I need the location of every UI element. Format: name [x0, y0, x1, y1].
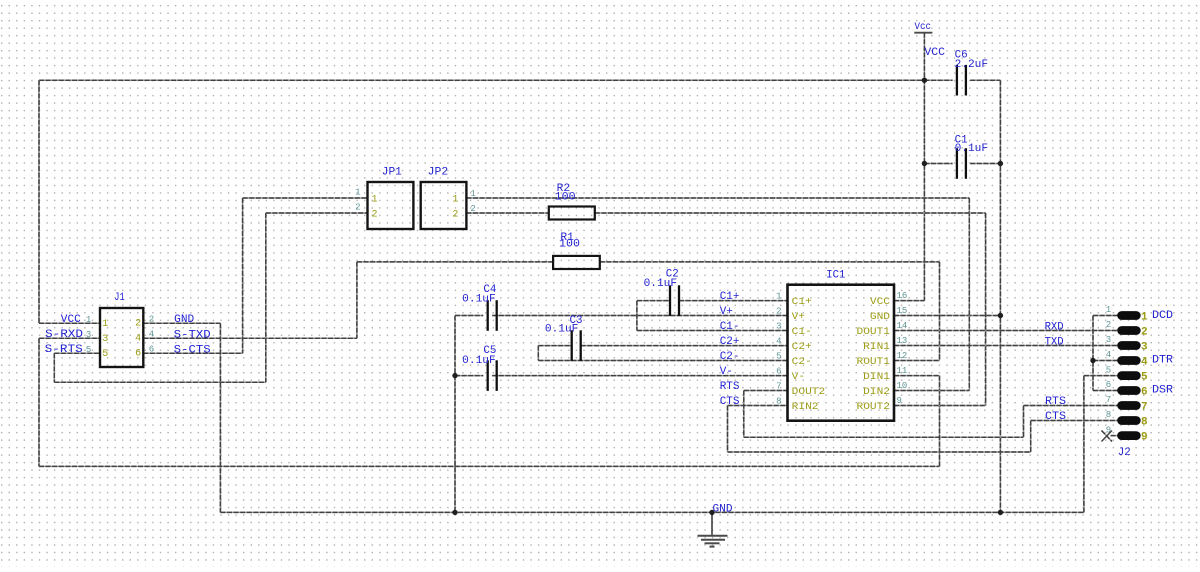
wire IC1 pin5 C2-	[538, 360, 788, 362]
svg-text:C2-: C2-	[792, 357, 812, 368]
wire C4 right lead to IC1 V+ pin2	[492, 315, 788, 317]
svg-text:3: 3	[776, 322, 781, 332]
J2 pin 8 pad	[1118, 417, 1141, 425]
svg-text:14: 14	[897, 321, 908, 331]
wire C1 left lead	[924, 163, 952, 165]
capacitor C1 left plate	[956, 148, 958, 179]
wire TXD: IC1 pin13 RIN1 to J2 pin3	[894, 345, 1119, 347]
svg-text:RTS: RTS	[1045, 396, 1066, 408]
wire IC1 pin9 ROUT2 stub	[894, 405, 986, 407]
svg-text:6: 6	[149, 344, 154, 354]
capacitor C5 left plate	[487, 360, 489, 391]
wire RTS loop horizontal y=437	[744, 436, 1024, 438]
wire JP2 pin1 horizontal y=198	[466, 197, 969, 199]
wire J1 pin3 S-RXD stub	[39, 337, 100, 339]
wire JP1 pin2 stub	[266, 212, 368, 214]
wire RXD: IC1 pin14 DOUT1 to J2 pin2	[894, 330, 1119, 332]
wire DCD/DSR vertical x=1093	[1092, 316, 1094, 391]
svg-text:C1+: C1+	[792, 297, 812, 308]
wire C3 left lead	[538, 345, 571, 347]
svg-text:8: 8	[1141, 416, 1148, 428]
connector J1 body	[100, 308, 143, 367]
svg-text:0.1uF: 0.1uF	[545, 324, 579, 336]
svg-text:ROUT2: ROUT2	[857, 402, 891, 413]
svg-text:4: 4	[149, 329, 154, 339]
J2 pin 7 pad	[1118, 402, 1141, 410]
ground symbol GND bar2	[701, 539, 725, 541]
svg-text:6: 6	[776, 367, 781, 377]
svg-text:C1-: C1-	[720, 321, 740, 333]
svg-text:3: 3	[86, 330, 91, 340]
svg-text:VCC: VCC	[870, 297, 890, 308]
J2 pin 4 pad	[1118, 357, 1141, 365]
svg-text:13: 13	[897, 336, 908, 346]
J2 pin 5 pad	[1118, 372, 1141, 380]
op-amp IC1 body	[788, 285, 895, 421]
svg-text:DSR: DSR	[1152, 385, 1173, 397]
svg-text:C2+: C2+	[720, 336, 740, 348]
svg-text:TXD: TXD	[1045, 337, 1064, 349]
svg-text:2: 2	[776, 307, 781, 317]
wire C2 right lead to IC1 C1+ pin1	[679, 300, 788, 302]
wire GND bottom rail	[220, 511, 1084, 513]
wire VCC top horizontal y=80	[39, 79, 924, 81]
wire J1 pin5 S-RTS stub	[54, 352, 100, 354]
svg-text:GND: GND	[870, 312, 890, 323]
svg-text:6: 6	[135, 349, 141, 360]
svg-text:JP1: JP1	[382, 166, 402, 178]
junction VCC/C6	[922, 78, 927, 83]
svg-text:CTS: CTS	[1045, 411, 1066, 423]
power symbol Vcc top bar	[914, 32, 932, 34]
svg-text:7: 7	[1141, 401, 1148, 413]
J2 pin 1 pad	[1118, 312, 1141, 320]
svg-text:2: 2	[1141, 326, 1148, 338]
wire J1 pin6 S-CTS stub	[143, 352, 242, 354]
wire RTS to J2 pin7	[1024, 405, 1120, 407]
connector JP2 body	[421, 182, 467, 229]
svg-text:12: 12	[897, 351, 908, 361]
svg-text:GND: GND	[174, 314, 194, 326]
svg-text:ROUT1: ROUT1	[857, 357, 891, 368]
capacitor C4 left plate	[487, 300, 489, 331]
svg-text:DIN1: DIN1	[863, 372, 890, 383]
wire J1 pin4 S-TXD stub	[143, 337, 357, 339]
wire J2 pin5 vertical x=1084	[1083, 376, 1085, 513]
svg-text:J1: J1	[114, 292, 125, 304]
svg-text:VCC: VCC	[924, 47, 945, 59]
svg-text:15: 15	[897, 306, 908, 316]
wire RTS vertical x=1023	[1023, 406, 1025, 438]
J2 pin 9 pad	[1118, 432, 1141, 440]
svg-text:4: 4	[1106, 350, 1111, 360]
svg-text:2: 2	[1106, 320, 1111, 330]
svg-text:S-RTS: S-RTS	[45, 344, 83, 356]
wire IC1 pin7 DOUT2 stub	[744, 390, 788, 392]
svg-text:S-CTS: S-CTS	[174, 344, 211, 356]
svg-text:7: 7	[776, 382, 781, 392]
svg-text:1: 1	[355, 188, 360, 198]
wire IC1 pin16 VCC stub	[894, 300, 924, 302]
wire S-RTS dip horizontal y=382	[54, 381, 265, 383]
wire JP1 pin1 vertical x=243	[242, 198, 244, 353]
svg-text:2.2uF: 2.2uF	[955, 59, 989, 71]
wire J1 pin2 GND stub	[143, 322, 220, 324]
svg-text:S-RXD: S-RXD	[45, 329, 83, 341]
junction C1/GND	[998, 161, 1003, 166]
J2 pin 6 pad	[1118, 387, 1141, 395]
wire RIN2 vertical x=727	[727, 406, 729, 453]
svg-text:DCD: DCD	[1152, 310, 1173, 322]
svg-text:V-: V-	[792, 372, 805, 383]
resistor R2 body	[549, 207, 595, 220]
svg-text:GND: GND	[713, 503, 733, 515]
wire JP1 pin1 stub	[243, 197, 368, 199]
svg-text:3: 3	[102, 334, 108, 345]
ground symbol GND bar3	[705, 542, 720, 544]
svg-text:7: 7	[1106, 395, 1111, 405]
wire ROUT1 vertical x=939	[939, 262, 941, 361]
svg-text:8: 8	[1106, 410, 1111, 420]
wire IC1 pin8 RIN2 stub	[728, 405, 789, 407]
svg-text:2: 2	[452, 210, 458, 221]
svg-text:DIN2: DIN2	[863, 387, 890, 398]
wire GND right vertical x=1000	[999, 80, 1001, 512]
svg-text:2: 2	[149, 314, 154, 324]
svg-text:1: 1	[86, 315, 91, 325]
svg-text:RIN1: RIN1	[863, 342, 890, 353]
wire R1 left lead	[357, 261, 553, 263]
svg-text:V-: V-	[720, 366, 733, 378]
ground symbol GND bar1	[698, 535, 728, 537]
svg-text:1: 1	[1141, 311, 1148, 323]
svg-text:100: 100	[555, 191, 576, 203]
svg-text:9: 9	[1141, 432, 1148, 444]
svg-text:2: 2	[372, 210, 378, 221]
no-connect X at J2 pin 9	[1102, 431, 1113, 442]
svg-text:2: 2	[135, 319, 141, 330]
wire DIN1 vertical x=939	[939, 376, 941, 467]
wire GND vertical x=220	[219, 323, 221, 512]
wire CTS loop horizontal y=452	[728, 451, 1031, 453]
wire J2 pin9 stub	[1111, 435, 1120, 437]
junction GND pin15	[998, 313, 1003, 318]
svg-text:RTS: RTS	[720, 381, 740, 393]
connector JP1 body	[368, 182, 414, 229]
wire C6 right lead	[970, 79, 1000, 81]
capacitor C3 left plate	[571, 330, 573, 361]
svg-text:8: 8	[776, 397, 781, 407]
svg-text:DTR: DTR	[1152, 355, 1173, 367]
svg-text:5: 5	[1106, 365, 1111, 375]
capacitor C2 right plate	[678, 285, 680, 316]
wire S-TXD vertical x=357	[356, 262, 358, 338]
svg-text:1: 1	[452, 195, 458, 206]
ground symbol GND bar4	[710, 546, 715, 548]
svg-text:V+: V+	[792, 312, 805, 323]
svg-text:V+: V+	[720, 306, 733, 318]
wire GND vertical x=455 (C4/C5)	[454, 316, 456, 513]
junction DTR	[1090, 358, 1095, 363]
svg-text:RXD: RXD	[1045, 322, 1064, 334]
svg-text:5: 5	[776, 352, 781, 362]
wire C4 left lead	[455, 315, 483, 317]
svg-text:100: 100	[559, 239, 580, 251]
svg-text:C1+: C1+	[720, 291, 740, 303]
wire VCC left vertical x=39	[38, 80, 40, 323]
wire C2 vertical x=637	[636, 301, 638, 331]
capacitor C4 right plate	[496, 300, 498, 331]
svg-text:DOUT2: DOUT2	[792, 387, 826, 398]
svg-text:3: 3	[1141, 341, 1148, 353]
svg-text:0.1uF: 0.1uF	[462, 355, 496, 367]
svg-text:2: 2	[355, 203, 360, 213]
J2 pin 3 pad	[1118, 342, 1141, 350]
wire JP1 pin2 vertical x=266	[265, 213, 267, 382]
svg-text:1: 1	[1106, 305, 1111, 315]
wire C5 left lead	[455, 375, 483, 377]
wire J2 pin4 DTR stub	[1093, 360, 1119, 362]
wire ROUT2 vertical x=986	[985, 213, 987, 406]
wire IC1 pin10 DIN2 stub	[894, 390, 969, 392]
capacitor C3 right plate	[580, 330, 582, 361]
svg-text:5: 5	[86, 345, 91, 355]
svg-text:C2-: C2-	[720, 351, 740, 363]
resistor R1 body	[553, 256, 600, 269]
svg-text:11: 11	[897, 366, 908, 376]
junction GND rail x=455	[452, 510, 457, 515]
capacitor C2 left plate	[669, 285, 671, 316]
svg-text:C2+: C2+	[792, 342, 812, 353]
svg-text:JP2: JP2	[428, 166, 449, 178]
wire R2 right lead	[595, 212, 986, 214]
svg-text:0.1uF: 0.1uF	[462, 293, 496, 305]
wire C1 right lead	[970, 163, 1000, 165]
wire IC1 pin15 GND	[894, 315, 1000, 317]
svg-text:0.1uF: 0.1uF	[955, 143, 989, 155]
wire DIN2 vertical x=969	[968, 198, 970, 391]
wire C6 left lead	[924, 79, 952, 81]
junction C5/GND	[452, 373, 457, 378]
svg-text:1: 1	[776, 292, 781, 302]
wire J2 pin5 stub	[1084, 375, 1119, 377]
wire C3 vertical x=538	[537, 346, 539, 361]
svg-text:6: 6	[1141, 386, 1148, 398]
svg-text:5: 5	[1141, 372, 1148, 384]
wire DOUT2 vertical x=744	[743, 391, 745, 438]
wire JP2 pin2 to R2	[466, 212, 548, 214]
svg-text:3: 3	[1106, 335, 1111, 345]
wire C2 left lead	[637, 300, 670, 302]
svg-text:4: 4	[1141, 356, 1148, 368]
wire S-RXD left vertical x=39	[38, 338, 40, 466]
wire CTS to J2 pin8	[1031, 420, 1119, 422]
wire VCC main vertical x=924	[923, 33, 925, 301]
wire C5 right lead to IC1 V- pin6	[492, 375, 788, 377]
wire J1 pin1 VCC stub	[39, 322, 100, 324]
capacitor C6 right plate	[965, 65, 967, 96]
svg-text:4: 4	[135, 334, 141, 345]
J2 pin 2 pad	[1118, 327, 1141, 335]
wire R1 right lead	[600, 261, 940, 263]
svg-text:CTS: CTS	[720, 396, 740, 408]
wire S-RTS vertical x=54	[53, 353, 55, 382]
wire J2 pin1 DCD stub	[1093, 315, 1119, 317]
svg-text:C1-: C1-	[792, 327, 812, 338]
svg-text:2: 2	[470, 204, 475, 214]
svg-text:1: 1	[470, 189, 475, 199]
junction GND symbol	[709, 510, 714, 515]
wire IC1 pin3 C1-	[637, 330, 788, 332]
svg-text:5: 5	[102, 349, 108, 360]
svg-text:J2: J2	[1118, 447, 1131, 459]
junction GND rail x=1000	[998, 510, 1003, 515]
wire J2 pin6 DSR stub	[1093, 390, 1119, 392]
svg-text:1: 1	[102, 319, 108, 330]
capacitor C5 right plate	[496, 360, 498, 391]
junction VCC/C1	[922, 161, 927, 166]
svg-text:1: 1	[372, 195, 378, 206]
capacitor C6 left plate	[956, 65, 958, 96]
svg-text:6: 6	[1106, 380, 1111, 390]
capacitor C1 right plate	[965, 148, 967, 179]
wire S-RXD bottom horizontal y=466	[39, 465, 940, 467]
wire IC1 pin12 ROUT1 stub	[894, 360, 940, 362]
svg-text:4: 4	[776, 337, 781, 347]
ground symbol GND stem	[711, 512, 713, 535]
svg-text:RIN2: RIN2	[792, 402, 819, 413]
svg-text:9: 9	[897, 396, 902, 406]
svg-text:0.1uF: 0.1uF	[644, 278, 678, 290]
svg-text:Vcc: Vcc	[915, 22, 932, 33]
wire IC1 pin11 DIN1 stub	[894, 375, 940, 377]
wire CTS vertical x=1031	[1030, 421, 1032, 453]
svg-text:VCC: VCC	[61, 314, 81, 326]
svg-text:DOUT1: DOUT1	[857, 327, 891, 338]
svg-text:S-TXD: S-TXD	[174, 329, 211, 341]
svg-text:IC1: IC1	[826, 270, 845, 282]
wire C3 right lead to IC1 C2+ pin4	[581, 345, 788, 347]
svg-text:16: 16	[897, 291, 908, 301]
svg-text:10: 10	[897, 381, 908, 391]
